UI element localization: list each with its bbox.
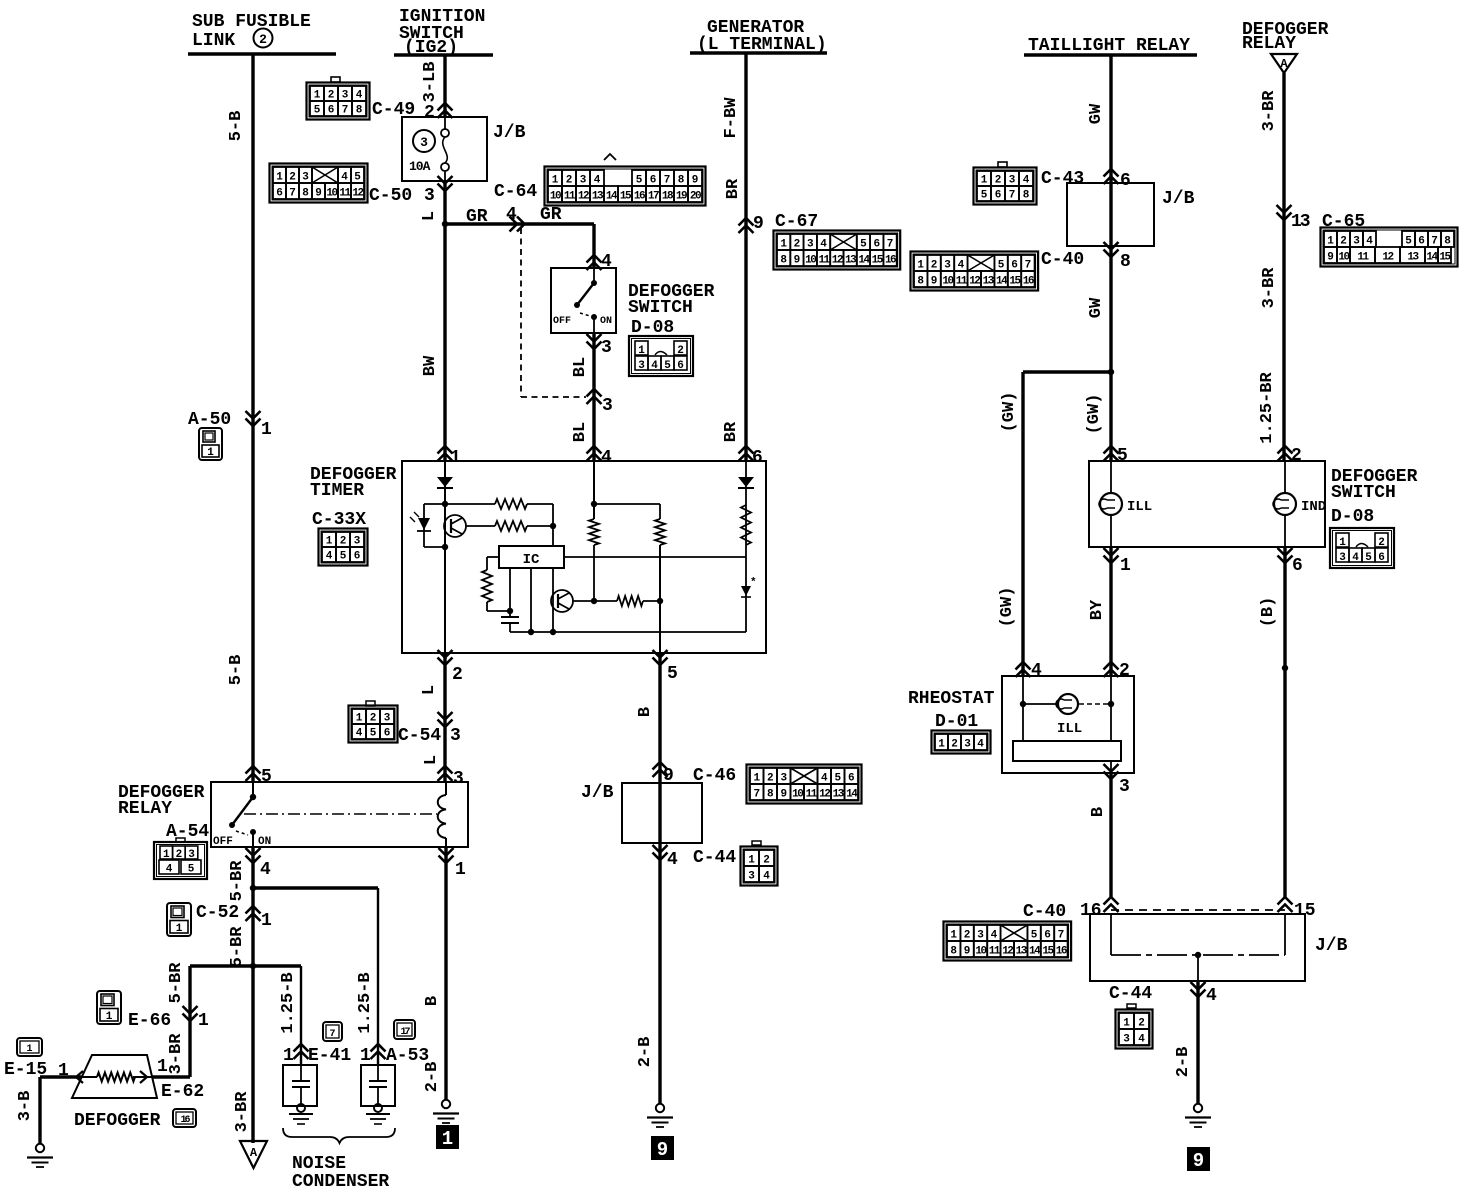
svg-text:9: 9 [780,789,787,801]
svg-text:6: 6 [677,360,684,372]
fuse symbol [444,117,446,129]
svg-text:A-54: A-54 [166,822,209,842]
svg-text:2: 2 [328,90,335,102]
svg-text:BR: BR [724,178,743,199]
timer pin 2 [438,650,453,665]
svg-text:4: 4 [601,448,612,468]
svg-text:B: B [636,707,655,717]
connector C-64 pin grid [545,167,706,206]
svg-text:4: 4 [341,172,348,184]
ground (defogger) [36,1144,44,1152]
ground (timer) [656,1104,664,1112]
svg-text:3: 3 [302,172,309,184]
svg-text:5: 5 [636,175,643,187]
svg-text:1.25-BR: 1.25-BR [1258,372,1277,444]
connector C-40 pin grid [911,252,1039,291]
svg-text:5: 5 [261,767,272,787]
svg-text:RELAY: RELAY [1242,34,1296,54]
svg-text:1: 1 [1120,556,1131,576]
svg-text:1: 1 [442,1128,453,1150]
connector D-08 pin grid [629,336,693,376]
svg-text:8: 8 [950,946,957,958]
svg-text:BW: BW [421,355,440,376]
svg-text:(GW): (GW) [998,587,1017,628]
rheostat pin 2 [1104,662,1119,677]
svg-text:8: 8 [1444,236,1451,248]
wire from GR to defogger switch pin 4 [592,224,595,268]
svg-text:OFF: OFF [553,316,571,327]
svg-text:6: 6 [328,105,335,117]
connector A-54 pin grid [154,842,207,879]
svg-text:8: 8 [767,789,774,801]
svg-text:1: 1 [455,860,466,880]
svg-text:10: 10 [792,789,803,801]
noise condenser A-53 [361,1065,395,1106]
svg-text:3: 3 [580,175,587,187]
svg-text:3: 3 [1339,552,1346,564]
svg-text:3: 3 [354,536,361,548]
svg-text:1.25-B: 1.25-B [279,972,298,1033]
svg-text:9: 9 [931,276,938,288]
svg-text:IC: IC [523,552,540,568]
svg-text:9: 9 [315,188,322,200]
svg-text:6: 6 [848,773,855,785]
svg-text:1: 1 [326,536,333,548]
svg-text:E-62: E-62 [161,1082,204,1102]
svg-text:GW: GW [1087,297,1106,318]
svg-text:3-BR: 3-BR [1260,267,1279,309]
defogger timer box C-33X [402,461,766,653]
svg-text:19: 19 [676,191,687,203]
svg-text:6: 6 [752,448,763,468]
svg-text:2: 2 [289,172,296,184]
switch pin 3 [587,334,602,349]
svg-text:4: 4 [1352,552,1359,564]
defogger switch D-08 lamp box [1089,461,1325,547]
svg-text:5-B: 5-B [227,655,246,686]
svg-text:6: 6 [354,551,361,563]
connector C-46 pin grid [747,765,862,804]
svg-text:3: 3 [450,726,461,746]
svg-text:4: 4 [1366,236,1373,248]
svg-text:BY: BY [1088,599,1107,620]
svg-text:C-54: C-54 [398,726,441,746]
svg-text:10: 10 [1338,252,1349,264]
svg-text:8: 8 [302,188,309,200]
svg-text:3: 3 [1123,1034,1130,1046]
connector C-52 icon [167,903,191,936]
wire GR to defogger switch [445,222,594,225]
switch contact [593,268,595,283]
wire B from timer pin 5 [658,653,661,1104]
svg-text:SUB FUSIBLE: SUB FUSIBLE [192,12,311,32]
connector C-65 inline marker pin 13 [1277,205,1292,220]
svg-text:2: 2 [424,103,435,123]
svg-text:6: 6 [995,190,1002,202]
svg-text:3: 3 [977,930,984,942]
svg-text:6: 6 [1044,930,1051,942]
svg-text:1: 1 [157,1057,168,1077]
junction block J/B C-43 pin 6 [1104,169,1119,184]
connector E-66 inline marker pin 1 [183,1006,198,1021]
J/B exit pin 4 C-44 (bottom) [1191,982,1206,997]
svg-text:9: 9 [692,175,699,187]
svg-text:6: 6 [1292,556,1303,576]
svg-text:2: 2 [763,855,770,867]
svg-text:6: 6 [650,175,657,187]
wire (B) [1283,547,1286,897]
wire 3-LB ignition switch [443,55,446,117]
svg-text:1: 1 [176,923,183,935]
connector C-44 pin grid [741,847,778,886]
defogger timer pin 1 [438,446,453,461]
svg-text:5-BR: 5-BR [228,860,247,902]
svg-text:16: 16 [1023,276,1034,288]
svg-text:5: 5 [834,773,841,785]
svg-text:6: 6 [1011,260,1018,272]
svg-text:4: 4 [820,239,827,251]
svg-text:10A: 10A [409,159,431,174]
svg-text:CONDENSER: CONDENSER [292,1172,389,1190]
relay pin 1 [439,848,454,863]
svg-text:5: 5 [1405,236,1412,248]
svg-text:ILL: ILL [1057,721,1082,737]
svg-text:8: 8 [1120,252,1131,272]
svg-text:10: 10 [805,255,816,267]
svg-text:1: 1 [748,855,755,867]
svg-text:L: L [420,211,439,221]
svg-text:3: 3 [944,260,951,272]
svg-text:(GW): (GW) [1085,394,1104,435]
connector C-33X pin grid [319,529,368,566]
junction block J/B with fuse 3 10A [402,117,487,181]
svg-text:20: 20 [690,191,701,203]
svg-text:LINK: LINK [192,31,235,51]
svg-text:C-33X: C-33X [312,510,366,530]
svg-text:J/B: J/B [1315,936,1348,956]
svg-text:A: A [250,1146,258,1160]
dashed wire pin16 to pin15 [1111,909,1285,911]
switch pin 6 [1278,548,1293,563]
wire 5-B sub fusible link column [251,54,254,782]
svg-text:C-40: C-40 [1041,250,1084,270]
svg-text:5-BR: 5-BR [167,962,186,1004]
svg-text:ON: ON [258,836,271,848]
IC box [499,546,564,568]
rheostat pin 4 [1016,662,1031,677]
svg-text:D-08: D-08 [1331,507,1374,527]
svg-text:12: 12 [969,276,980,288]
svg-text:5: 5 [981,190,988,202]
svg-text:4: 4 [166,864,173,876]
svg-text:6: 6 [873,239,880,251]
svg-text:4: 4 [651,360,658,372]
svg-text:2: 2 [259,32,267,47]
svg-text:2: 2 [767,773,774,785]
svg-text:C-52: C-52 [196,903,239,923]
svg-text:16: 16 [885,255,896,267]
svg-text:8: 8 [780,255,787,267]
svg-text:5-BR: 5-BR [228,926,247,968]
svg-text:4: 4 [1023,175,1030,187]
ground (illumination) [1194,1104,1202,1112]
connector E-41 icon [323,1022,342,1041]
svg-text:5-B: 5-B [227,111,246,142]
svg-text:1: 1 [314,90,321,102]
svg-text:4: 4 [958,260,965,272]
resistor R1 [445,503,495,505]
node branch to rheostat [1108,369,1114,375]
dashed link from C-64 pin 4 to D-08 pin 3 [520,228,522,397]
svg-text:3: 3 [342,90,349,102]
svg-text:C-43: C-43 [1041,169,1084,189]
svg-text:1: 1 [276,172,283,184]
relay pin 4 [246,848,261,863]
node junction to E-41 / defogger branch [250,963,256,969]
node GR branch junction [442,221,448,227]
svg-text:TAILLIGHT RELAY: TAILLIGHT RELAY [1028,36,1190,56]
svg-text:5: 5 [1031,930,1038,942]
svg-text:1: 1 [1123,1018,1130,1030]
svg-text:8: 8 [356,105,363,117]
svg-text:7: 7 [887,239,894,251]
svg-text:4: 4 [763,871,770,883]
relay pin 3 [438,766,453,781]
timer internal: pin1 rail [444,461,446,653]
svg-text:9: 9 [657,1139,668,1161]
svg-text:TIMER: TIMER [310,481,364,501]
svg-text:1: 1 [360,1046,371,1066]
svg-text:OFF: OFF [213,836,233,848]
connector A-50 inline marker pin 1 [246,411,261,426]
resistor R4 [589,519,599,545]
connector C-43 pin grid [974,168,1037,205]
svg-text:2: 2 [1119,661,1130,681]
svg-text:1: 1 [1327,236,1334,248]
svg-text:1: 1 [450,448,461,468]
svg-text:2: 2 [951,739,958,751]
wire GW taillight relay [1109,55,1112,461]
svg-text:7: 7 [664,175,671,187]
connector C-67 pin grid [774,231,901,270]
svg-text:3-B: 3-B [16,1091,35,1122]
svg-text:1: 1 [917,260,924,272]
wire L from timer pin 2 [443,653,446,782]
svg-text:7: 7 [342,105,349,117]
resistor R5 [659,504,661,519]
svg-text:6: 6 [1378,552,1385,564]
svg-text:C-67: C-67 [775,212,818,232]
svg-text:16: 16 [634,191,645,203]
svg-text:12: 12 [819,789,830,801]
svg-text:J/B: J/B [1162,189,1195,209]
rheostat resistance element [1022,704,1024,741]
svg-text:RHEOSTAT: RHEOSTAT [908,689,995,709]
svg-text:12: 12 [1002,946,1013,958]
svg-text:4: 4 [356,90,363,102]
svg-text:2: 2 [370,713,377,725]
svg-text:5: 5 [1117,446,1128,466]
timer pin 5 [653,650,668,665]
defogger timer pin 6 [739,446,754,461]
svg-text:2: 2 [931,260,938,272]
svg-text:3: 3 [807,239,814,251]
svg-text:B: B [1089,807,1108,817]
svg-text:3: 3 [453,769,464,789]
wire BW ignition down to timer [443,181,446,461]
wire into defogger right terminal [152,1075,190,1078]
diode D3 [741,586,751,596]
svg-text:4: 4 [821,773,828,785]
svg-text:10: 10 [975,946,986,958]
svg-text:SWITCH: SWITCH [1331,483,1396,503]
resistor R3 (left of IC) [487,556,499,558]
connector C-50 marker pin 3 [438,176,453,191]
connector C-44 pin grid (bottom) [1116,1010,1153,1049]
noise condenser brace and label [283,1128,395,1143]
svg-text:BL: BL [571,357,590,377]
svg-text:5: 5 [860,239,867,251]
wire 2-B to ground [1196,981,1199,1104]
connector C-52 inline marker pin 1 [246,906,261,921]
svg-text:8: 8 [1023,190,1030,202]
wire B from relay pin 1 [444,847,447,1100]
connector E-15 icon [17,1038,42,1056]
connector D-08 inline marker pin 3 [587,389,602,404]
svg-text:2: 2 [794,239,801,251]
svg-text:4: 4 [356,728,363,740]
svg-text:C-44: C-44 [1109,984,1152,1004]
wire 3-B to ground [40,1075,82,1078]
svg-text:3: 3 [964,739,971,751]
svg-text:2: 2 [995,175,1002,187]
junction block J/B (C-46) pin 9 [653,762,668,777]
svg-text:2: 2 [340,536,347,548]
svg-text:17: 17 [648,191,659,203]
svg-text:4: 4 [1138,1034,1145,1046]
svg-text:12: 12 [578,191,589,203]
svg-text:2: 2 [964,930,971,942]
off-page connector triangle A (bottom) [240,1141,267,1168]
svg-text:L: L [420,685,439,695]
connector E-66 icon [97,991,121,1024]
switch pin 1 [1104,548,1119,563]
svg-text:7: 7 [753,789,760,801]
svg-text:5: 5 [1365,552,1372,564]
connector D-08 pin grid (right) [1330,528,1394,568]
connector C-65 pin grid [1321,228,1458,267]
svg-text:9: 9 [794,255,801,267]
svg-text:2: 2 [452,665,463,685]
svg-text:IND: IND [1301,499,1326,515]
svg-text:3: 3 [1119,777,1130,797]
svg-text:5: 5 [370,728,377,740]
svg-text:B: B [423,996,442,1006]
svg-text:1: 1 [106,1011,113,1023]
svg-text:4: 4 [260,860,271,880]
off-page connector triangle A (top) [1271,54,1297,73]
svg-text:6: 6 [1120,171,1131,191]
svg-text:E-41: E-41 [308,1046,351,1066]
ground (relay) [442,1100,450,1108]
relay actuation dash line [244,813,437,815]
resistor R2 [466,525,495,527]
svg-text:4: 4 [594,175,601,187]
pin 4 internal rail [593,461,595,519]
svg-text:6: 6 [1418,236,1425,248]
connector A-50 icon [199,428,222,460]
svg-text:4: 4 [991,930,998,942]
svg-text:ILL: ILL [1127,499,1152,515]
svg-text:A: A [1280,57,1288,71]
svg-text:5: 5 [354,172,361,184]
svg-text:1: 1 [198,1011,209,1031]
svg-text:*: * [750,577,757,589]
svg-text:3: 3 [780,773,787,785]
defogger timer pin 4 [587,446,602,461]
defogger relay A-54 box [211,782,468,847]
svg-text:9: 9 [753,214,764,234]
svg-text:4: 4 [977,739,984,751]
svg-text:4: 4 [326,551,333,563]
svg-text:1: 1 [26,1044,32,1055]
J/B exit pin 4 C-44 [653,845,668,860]
relay coil [445,782,447,795]
svg-text:1: 1 [780,239,787,251]
svg-text:D-01: D-01 [935,712,978,732]
svg-text:1: 1 [261,911,272,931]
svg-text:2: 2 [566,175,573,187]
rheostat pin 3 [1110,761,1112,773]
svg-text:7: 7 [289,188,296,200]
junction block J/B (bottom) [1090,914,1305,981]
wire B to C-40 [1109,773,1112,897]
svg-text:J/B: J/B [493,123,526,143]
svg-text:12: 12 [832,255,843,267]
diode D2 [738,477,754,487]
lamp ILL [1110,461,1112,493]
noise condenser E-41 [283,1065,317,1106]
svg-text:2: 2 [1138,1018,1145,1030]
connector C-49 pin grid [307,83,370,120]
svg-text:(GW): (GW) [1000,392,1019,433]
svg-text:3: 3 [601,338,612,358]
connector C-64 inline marker pin 4 [510,217,525,232]
svg-text:2-B: 2-B [423,1062,442,1093]
wire 3-BR down to triangle A [251,966,254,1143]
svg-text:3: 3 [1353,236,1360,248]
svg-text:3-BR: 3-BR [167,1033,186,1075]
wire BY [1109,547,1112,676]
diode D1 [437,477,453,487]
svg-text:8: 8 [678,175,685,187]
svg-text:9: 9 [1327,252,1334,264]
svg-text:7: 7 [329,1029,335,1040]
svg-text:4: 4 [1206,986,1217,1006]
svg-text:1.25-B: 1.25-B [356,972,375,1033]
wire F-BW generator [744,53,747,461]
lamp IND [1284,461,1286,493]
svg-text:3-BR: 3-BR [1260,90,1279,132]
svg-text:10: 10 [550,191,561,203]
svg-text:3: 3 [384,713,391,725]
svg-text:9: 9 [964,946,971,958]
ground marker 1 [436,1125,459,1149]
svg-text:ON: ON [600,316,612,327]
svg-text:C-65: C-65 [1322,212,1365,232]
svg-text:E-66: E-66 [128,1011,171,1031]
svg-text:5: 5 [314,105,321,117]
